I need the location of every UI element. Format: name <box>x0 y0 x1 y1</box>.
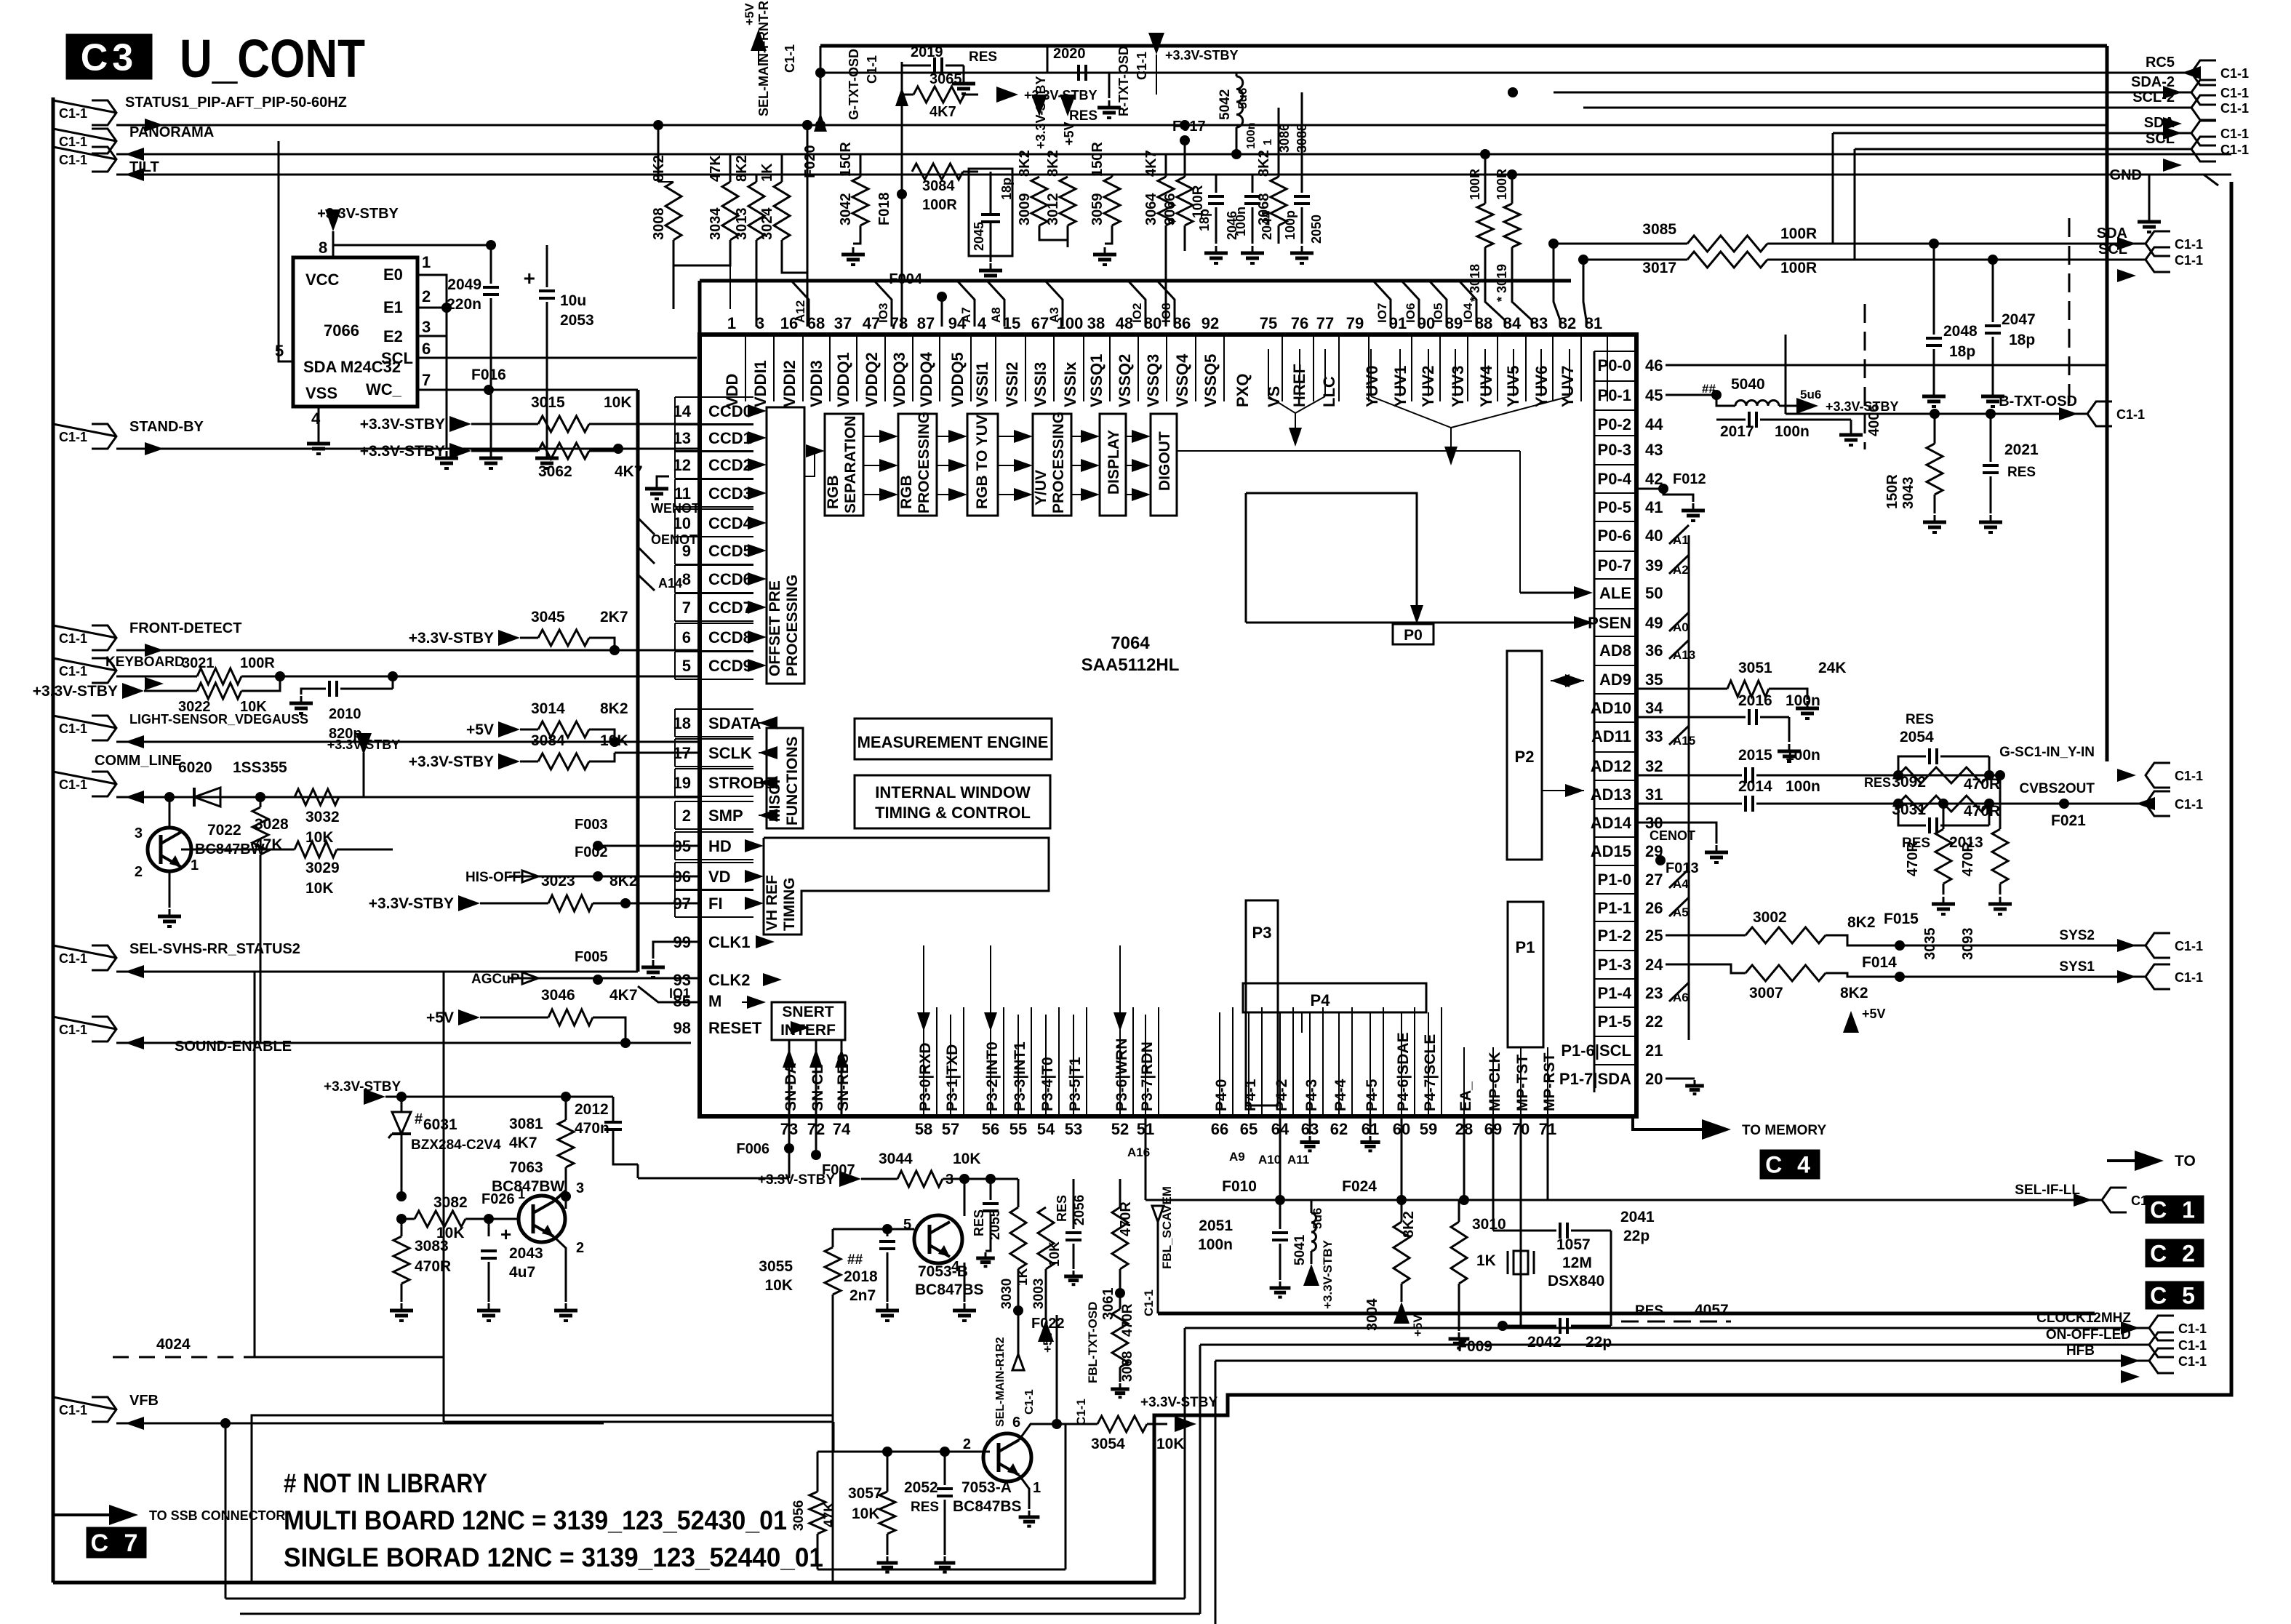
svg-text:E1: E1 <box>383 298 403 316</box>
svg-text:470R: 470R <box>415 1258 451 1275</box>
pin 49 PSEN <box>1594 608 1636 609</box>
ground emitter 7063 <box>553 1236 566 1302</box>
svg-text:23: 23 <box>1645 984 1663 1002</box>
svg-text:P4-0: P4-0 <box>1213 1079 1230 1111</box>
svg-text:VH REF: VH REF <box>764 875 780 931</box>
resistor 3042 150R <box>860 154 862 177</box>
wire SCL riser to YUV7 <box>1583 260 1586 327</box>
svg-text:F018: F018 <box>876 192 892 225</box>
pin 31 AD13 <box>1594 780 1636 781</box>
svg-text:5042: 5042 <box>1218 89 1233 120</box>
capacitor 2050 100p <box>1301 92 1303 193</box>
wire riser from VFB to stair <box>220 1418 231 1428</box>
tap IO8 <box>1157 281 1175 327</box>
svg-text:3030: 3030 <box>999 1279 1015 1309</box>
svg-text:27: 27 <box>1645 871 1663 889</box>
pin cell separators bottom <box>936 1007 937 1116</box>
svg-text:3045: 3045 <box>531 609 565 625</box>
svg-text:2051: 2051 <box>1199 1217 1233 1234</box>
svg-text:A0: A0 <box>1673 620 1689 634</box>
svg-text:CCD0: CCD0 <box>708 402 752 420</box>
resistor 3043 150R <box>1934 414 1936 444</box>
svg-text:2019: 2019 <box>911 44 943 60</box>
svg-text:P0-2: P0-2 <box>1598 415 1631 433</box>
power +3.3V-STBY arrow 3 <box>1148 33 1164 55</box>
svg-text:P1-1: P1-1 <box>1598 899 1631 917</box>
svg-text:HFB: HFB <box>2066 1343 2095 1359</box>
svg-text:SDA-2: SDA-2 <box>2131 74 2175 90</box>
svg-text:RESET: RESET <box>708 1019 762 1037</box>
resistor 3051 24K <box>1636 688 1727 690</box>
sheet ref C5 (black box) <box>2146 1282 2203 1308</box>
pin 45 P0-1 <box>1594 380 1636 382</box>
svg-text:100n: 100n <box>1775 423 1810 440</box>
svg-text:P3-4|T0: P3-4|T0 <box>1039 1057 1056 1111</box>
resistor 3046 4K7 <box>458 1009 480 1025</box>
svg-text:A2: A2 <box>1673 563 1689 577</box>
svg-text:IO6: IO6 <box>1404 303 1418 323</box>
svg-text:21: 21 <box>1645 1041 1663 1060</box>
capacitor 2016 100n <box>1636 716 1746 719</box>
junction F021 <box>2059 799 2069 809</box>
svg-text:F005: F005 <box>575 949 608 965</box>
svg-text:1: 1 <box>422 253 431 271</box>
pin 30 AD14 <box>1594 808 1636 809</box>
svg-text:77: 77 <box>1316 314 1334 332</box>
svg-text:56: 56 <box>982 1120 999 1138</box>
svg-text:2n7: 2n7 <box>849 1287 876 1304</box>
svg-text:10K: 10K <box>305 829 334 846</box>
svg-text:P0-3: P0-3 <box>1598 441 1631 459</box>
tap IO6 <box>1402 281 1419 327</box>
bus tap A1 <box>1669 525 1689 544</box>
svg-text:47K: 47K <box>708 155 724 182</box>
svg-text:BC847BS: BC847BS <box>915 1281 984 1298</box>
bus tap A15 <box>1669 726 1689 745</box>
svg-text:3029: 3029 <box>305 860 340 876</box>
svg-text:+3.3V-STBY: +3.3V-STBY <box>1826 399 1899 414</box>
svg-text:10K: 10K <box>604 394 632 411</box>
svg-text:P1: P1 <box>1516 938 1535 956</box>
svg-text:2018: 2018 <box>844 1268 878 1285</box>
wire stair risers bottom <box>1184 1328 1186 1599</box>
svg-text:C 4: C 4 <box>1765 1152 1815 1178</box>
arrows between processing blocks <box>863 436 889 437</box>
resistor 3002 8K2 <box>1666 935 1746 937</box>
svg-text:COMM_LINE: COMM_LINE <box>95 753 182 769</box>
svg-text:22: 22 <box>1645 1012 1663 1031</box>
capacitor 2043 4u7 <box>488 1219 490 1236</box>
wire right block boundary <box>1636 1062 1637 1116</box>
capacitor 2046 18p <box>1215 175 1218 193</box>
junction F013 <box>1655 855 1666 865</box>
svg-text:HD: HD <box>708 837 732 855</box>
svg-text:A12: A12 <box>793 300 807 323</box>
power +3.3V-STBY at 3032 <box>356 733 372 755</box>
svg-text:RGB: RGB <box>825 475 841 509</box>
svg-text:C1-1: C1-1 <box>59 664 87 679</box>
connector C1-1 ON-OFF-LED <box>1200 1344 2149 1346</box>
resistor 3081 4K7 <box>565 1097 567 1120</box>
pin 20 P1-7|SDA <box>1594 1064 1636 1065</box>
svg-text:2043: 2043 <box>509 1245 543 1262</box>
resistor 3024 1K <box>781 154 783 182</box>
IC top pin cells <box>745 335 746 401</box>
pin 36 AD8 <box>1594 636 1636 637</box>
svg-text:2050: 2050 <box>1309 215 1324 244</box>
svg-text:F006: F006 <box>736 1141 769 1157</box>
svg-text:SDATA: SDATA <box>708 714 761 732</box>
svg-text:C1-1: C1-1 <box>59 430 87 444</box>
tap A7 <box>957 281 975 327</box>
svg-text:P1-6|SCL: P1-6|SCL <box>1561 1041 1631 1060</box>
svg-text:C 1: C 1 <box>2150 1197 2199 1223</box>
svg-text:1: 1 <box>1033 1480 1041 1496</box>
resistor 3021 100R <box>197 668 241 684</box>
svg-text:VDDQ4: VDDQ4 <box>917 351 935 407</box>
resistor 3084b 10K <box>498 753 520 769</box>
arrow TO <box>2103 1179 2113 1180</box>
resistor 3092 470R horizontal <box>1898 767 1989 783</box>
capacitor 2021 RES <box>1990 414 1992 462</box>
svg-text:MP-RST: MP-RST <box>1541 1052 1558 1111</box>
tap IO5 <box>1429 281 1447 327</box>
svg-text:3086: 3086 <box>1277 124 1292 153</box>
connector C1-1 SDA-2 <box>1554 92 2191 94</box>
svg-text:5u6: 5u6 <box>1311 1208 1324 1229</box>
wire bottom rail 7053-A <box>817 1569 1065 1571</box>
svg-text:P0-1: P0-1 <box>1598 386 1631 404</box>
svg-text:+3.3V-STBY: +3.3V-STBY <box>758 1172 835 1188</box>
svg-text:F003: F003 <box>575 817 608 833</box>
svg-text:C1-1: C1-1 <box>1142 1289 1156 1316</box>
svg-text:470R: 470R <box>1964 776 2000 793</box>
power +3.3V-STBY for EEPROM <box>325 209 341 231</box>
svg-text:39: 39 <box>1645 556 1663 575</box>
connector C1-1 SYS2 <box>2146 933 2170 958</box>
wires P4 internal verticals <box>1219 1012 1220 1115</box>
junction F009 <box>1498 1321 1508 1331</box>
resistor 3044 10K <box>839 1171 861 1187</box>
resistor 3083 470R <box>401 1219 403 1236</box>
svg-text:1: 1 <box>727 314 736 332</box>
svg-text:VSSI3: VSSI3 <box>1031 362 1049 407</box>
svg-text:C1-1: C1-1 <box>59 135 87 149</box>
svg-text:3021: 3021 <box>182 655 215 671</box>
svg-text:G-SC1-IN_Y-IN: G-SC1-IN_Y-IN <box>1999 745 2095 760</box>
svg-text:MP-TST: MP-TST <box>1514 1055 1531 1111</box>
wire base feed 7053-A <box>444 1421 833 1423</box>
svg-text:TO SSB CONNECTOR: TO SSB CONNECTOR <box>149 1508 285 1523</box>
junction F026 <box>484 1214 494 1224</box>
power +3.3V-STBY rail 8031 <box>364 1089 385 1105</box>
svg-text:3051: 3051 <box>1738 660 1772 676</box>
svg-text:4K7: 4K7 <box>609 987 638 1004</box>
svg-text:C1-1: C1-1 <box>59 106 87 121</box>
svg-text:2047: 2047 <box>2002 311 2036 328</box>
sheet ref C1 (black box) <box>2146 1196 2203 1223</box>
svg-text:1K: 1K <box>759 163 775 182</box>
svg-text:3015: 3015 <box>531 394 565 411</box>
tap IO2 <box>1128 281 1145 327</box>
resistor 3032 10K <box>295 789 339 805</box>
svg-text:+: + <box>524 267 535 289</box>
svg-text:4K7: 4K7 <box>929 104 956 120</box>
svg-text:81: 81 <box>1585 314 1602 332</box>
block RGB SEPARATION <box>825 414 863 516</box>
connector C1-1 SDA mid <box>2146 231 2170 256</box>
svg-text:3062: 3062 <box>538 463 572 480</box>
svg-text:10K: 10K <box>852 1505 880 1522</box>
svg-text:3017: 3017 <box>1642 260 1676 276</box>
svg-text:P0-5: P0-5 <box>1598 498 1631 516</box>
junction F018 <box>897 189 907 199</box>
svg-text:GND: GND <box>2110 167 2142 183</box>
svg-text:ALE: ALE <box>1599 584 1631 602</box>
svg-text:+3.3V-STBY: +3.3V-STBY <box>317 206 399 222</box>
resistor 3059 150R <box>1111 175 1113 177</box>
wires P3 internal verticals with down arrows <box>923 945 924 1115</box>
svg-text:7063: 7063 <box>509 1159 543 1176</box>
svg-text:6: 6 <box>1012 1415 1020 1431</box>
tap A3 <box>1045 281 1063 327</box>
connector C1-1 STATUS1_PIP-AFT_PIP-50-60HZ <box>92 100 116 125</box>
svg-text:3: 3 <box>945 1172 953 1188</box>
svg-text:P0: P0 <box>1404 627 1423 644</box>
svg-text:F021: F021 <box>2051 812 2086 829</box>
svg-text:SYS1: SYS1 <box>2059 959 2095 975</box>
capacitor 2015 100n <box>1636 775 1742 777</box>
svg-text:2041: 2041 <box>1620 1209 1655 1225</box>
junction F010 <box>1275 1195 1285 1205</box>
svg-text:PROCESSING: PROCESSING <box>784 575 801 676</box>
svg-text:P1-3: P1-3 <box>1598 956 1631 974</box>
svg-text:7: 7 <box>682 599 691 617</box>
svg-text:LLC: LLC <box>1320 376 1338 407</box>
svg-text:2017: 2017 <box>1720 423 1754 440</box>
capacitor 2014 100n <box>1636 803 1742 805</box>
svg-text:+3.3V-STBY: +3.3V-STBY <box>360 443 445 460</box>
svg-text:+5V: +5V <box>1862 1007 1886 1021</box>
pin 2 SMP <box>675 801 753 802</box>
svg-text:3014: 3014 <box>531 700 565 717</box>
svg-text:PXQ: PXQ <box>1234 374 1252 407</box>
svg-text:7053-B: 7053-B <box>918 1263 968 1280</box>
svg-text:WC_: WC_ <box>366 380 402 399</box>
block RGB PROCESSING <box>898 414 937 516</box>
svg-text:G-TXT-OSD: G-TXT-OSD <box>847 49 861 120</box>
svg-text:RES: RES <box>1906 712 1934 727</box>
sheet ref C7 (black box) <box>87 1528 145 1557</box>
svg-text:2014: 2014 <box>1738 778 1772 795</box>
svg-text:SMP: SMP <box>708 807 743 825</box>
svg-text:84: 84 <box>1503 314 1522 332</box>
resistor 3082 10K <box>401 1218 415 1220</box>
svg-text:1: 1 <box>191 857 199 873</box>
svg-text:C1-1: C1-1 <box>783 44 797 73</box>
tap A12 <box>791 281 809 327</box>
svg-text:3: 3 <box>576 1180 584 1196</box>
svg-text:10: 10 <box>673 514 691 532</box>
svg-text:18p: 18p <box>1197 209 1212 231</box>
svg-text:DIGOUT: DIGOUT <box>1156 431 1173 491</box>
svg-text:74: 74 <box>833 1120 851 1138</box>
svg-text:2056: 2056 <box>1072 1195 1087 1225</box>
svg-text:TIMING: TIMING <box>781 878 798 932</box>
svg-text:FI: FI <box>708 895 723 913</box>
diode 6020 1SS355 <box>116 796 169 799</box>
wire collector 7053-B <box>964 1179 966 1216</box>
svg-text:OENOT: OENOT <box>651 532 697 547</box>
svg-text:24K: 24K <box>1818 660 1847 676</box>
svg-text:22p: 22p <box>1623 1228 1650 1244</box>
svg-text:13: 13 <box>673 429 691 447</box>
svg-text:100R: 100R <box>1780 260 1817 276</box>
svg-text:C1-1: C1-1 <box>2175 797 2203 812</box>
svg-text:SYS2: SYS2 <box>2059 928 2095 943</box>
svg-text:E0: E0 <box>383 265 403 284</box>
ground pins 63 61 <box>1309 1116 1311 1135</box>
svg-text:3023: 3023 <box>541 873 575 889</box>
wire SDA riser to YUV6 <box>1554 244 1560 327</box>
connector C1-1 SCL top <box>1855 148 2191 151</box>
wire EA_ riser <box>1463 1116 1466 1200</box>
svg-text:3068: 3068 <box>1256 193 1272 226</box>
wire MP-TST riser <box>1520 1116 1522 1326</box>
svg-text:AD10: AD10 <box>1591 699 1631 717</box>
svg-text:P1-4: P1-4 <box>1598 984 1632 1002</box>
svg-text:+5V: +5V <box>1411 1314 1425 1337</box>
svg-text:A6: A6 <box>1673 991 1689 1004</box>
junction dots top rails <box>653 120 663 130</box>
svg-text:B-TXT-OSD: B-TXT-OSD <box>1999 393 2077 409</box>
svg-text:2045: 2045 <box>972 222 986 251</box>
svg-text:VD: VD <box>708 868 731 886</box>
power +5V at 3003 <box>1038 1320 1054 1342</box>
svg-text:VSSQ2: VSSQ2 <box>1116 354 1134 407</box>
svg-text:3093: 3093 <box>1960 928 1976 961</box>
svg-text:2010: 2010 <box>329 706 361 722</box>
svg-text:79: 79 <box>1346 314 1364 332</box>
svg-text:SN-CL: SN-CL <box>809 1065 826 1111</box>
junction F014 SYS1 <box>1895 972 1905 982</box>
connector C1-1 LIGHT-SENSOR_VDEGAUSS <box>92 716 116 740</box>
svg-text:IO8: IO8 <box>1159 303 1173 323</box>
svg-text:3012: 3012 <box>1045 193 1061 226</box>
svg-text:10K: 10K <box>1047 1241 1063 1267</box>
svg-text:IO5: IO5 <box>1431 303 1445 323</box>
svg-text:4: 4 <box>977 314 987 332</box>
svg-text:A5: A5 <box>1673 905 1689 919</box>
svg-text:12: 12 <box>673 456 691 474</box>
svg-text:SCL-2: SCL-2 <box>2132 89 2175 105</box>
wires MP internal verticals <box>1463 1047 1465 1115</box>
svg-text:C 7: C 7 <box>91 1529 143 1557</box>
svg-text:CCD5: CCD5 <box>708 542 752 560</box>
svg-text:100n: 100n <box>1198 1236 1233 1253</box>
svg-text:8K2: 8K2 <box>1401 1211 1417 1238</box>
svg-text:2021: 2021 <box>2004 441 2039 458</box>
svg-text:54: 54 <box>1037 1120 1055 1138</box>
svg-text:8K2: 8K2 <box>651 155 667 182</box>
connector C1-1 SYS1 <box>2146 964 2170 989</box>
capacitor 2019 RES <box>902 65 935 66</box>
svg-text:220n: 220n <box>447 296 481 313</box>
svg-text:+: + <box>500 1223 511 1245</box>
svg-text:AD8: AD8 <box>1599 641 1631 660</box>
svg-text:52: 52 <box>1111 1120 1129 1138</box>
wire right vertical to G-SC1 flag <box>2106 125 2109 761</box>
svg-text:35: 35 <box>1645 671 1663 689</box>
wire from 877 bus down to 1601 <box>637 972 639 1164</box>
svg-text:3035: 3035 <box>1922 928 1938 961</box>
svg-text:87: 87 <box>917 314 935 332</box>
svg-text:M: M <box>708 992 721 1010</box>
connector C1-1 SCL-2 <box>1583 107 2191 109</box>
svg-text:8K2: 8K2 <box>1840 985 1868 1001</box>
pin 22 P1-5 <box>1594 1007 1636 1008</box>
svg-text:6031: 6031 <box>423 1116 457 1133</box>
svg-text:AD15: AD15 <box>1591 842 1631 860</box>
svg-text:100R: 100R <box>922 197 957 213</box>
svg-text:C1-1: C1-1 <box>2220 143 2249 157</box>
svg-text:RES: RES <box>972 1209 986 1236</box>
block MEASUREMENT ENGINE <box>855 719 1052 759</box>
wire stair horizontals bottom <box>225 1598 1185 1600</box>
svg-text:50: 50 <box>1645 584 1663 602</box>
svg-text:A10: A10 <box>1258 1153 1281 1167</box>
svg-text:PSEN: PSEN <box>1588 614 1631 632</box>
svg-text:1057: 1057 <box>1556 1236 1591 1253</box>
pin 33 AD11 <box>1594 721 1636 723</box>
pin 11 CCD3 <box>675 479 753 480</box>
pin 18 SDATA <box>675 708 753 710</box>
svg-text:3003: 3003 <box>1031 1279 1047 1309</box>
pin 8 CCD6 <box>675 564 753 566</box>
svg-text:P3-1|TXD: P3-1|TXD <box>944 1044 961 1111</box>
pin 24 P1-3 <box>1594 950 1636 951</box>
svg-text:P3-6|WRN: P3-6|WRN <box>1113 1039 1130 1111</box>
svg-text:VSSI2: VSSI2 <box>1003 362 1021 407</box>
bus tap A13 <box>1669 640 1689 659</box>
svg-text:100p: 100p <box>1283 210 1298 240</box>
svg-text:C1-1: C1-1 <box>2220 127 2249 141</box>
svg-text:3065: 3065 <box>929 71 962 87</box>
svg-text:C1-1: C1-1 <box>2116 407 2145 422</box>
resistor 3084 100R <box>912 164 963 180</box>
resistor 3009 8K2 <box>1039 116 1040 177</box>
svg-text:YUV3: YUV3 <box>1449 366 1467 407</box>
svg-text:C 2: C 2 <box>2150 1241 2199 1267</box>
svg-text:1: 1 <box>1262 139 1274 145</box>
connector C1-1 PANORAMA <box>92 129 116 153</box>
svg-text:C1-1: C1-1 <box>865 55 879 84</box>
svg-text:1SS355: 1SS355 <box>233 759 287 776</box>
svg-text:P0-7: P0-7 <box>1598 556 1631 575</box>
wire base rail 7053-A <box>817 1451 990 1453</box>
wire SEL-IF-LL <box>1145 1199 2102 1201</box>
resistor 3010 1K <box>1458 1200 1460 1222</box>
svg-text:SEL-IF-LL: SEL-IF-LL <box>2015 1183 2080 1198</box>
svg-text:##: ## <box>847 1252 863 1268</box>
svg-text:2016: 2016 <box>1738 692 1772 709</box>
svg-text:A11: A11 <box>1287 1153 1309 1167</box>
resistor 3068b 470R <box>1119 1293 1121 1309</box>
svg-text:RES: RES <box>1635 1303 1663 1319</box>
resistor 3003 10K <box>1045 1179 1047 1207</box>
junction F002 <box>593 871 603 881</box>
wire thick mid boundary <box>1158 1312 2095 1316</box>
